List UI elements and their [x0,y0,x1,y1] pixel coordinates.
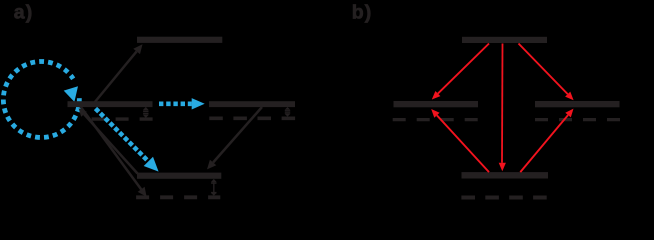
red arrow bottom to right (L5) [520,109,573,173]
excitation arrow to top level [95,44,143,102]
level middle-left bar a [68,101,153,107]
shift marker middle-left (double arrow) [143,107,149,118]
right dashed level b [535,118,620,121]
level bottom bar b [462,172,549,178]
pump cycle arrowhead [64,86,78,102]
svg-text:b): b) [352,2,373,24]
level top bar b [462,37,547,43]
red arrow top to bottom (L2) [499,44,506,172]
arrow bottom to middle-dashed (line2) [79,108,138,173]
shift marker middle-right (double arrow) [285,107,291,117]
level left bar b [394,101,479,107]
red arrow bottom to left (L4) [431,109,489,172]
middle-right dashed level a [209,117,296,121]
pump cycle circle (blue dotted) [3,61,79,137]
level |e> top bar a [137,37,222,43]
left dashed level b [393,118,478,121]
level bottom bar a [137,173,221,179]
level right bar b [535,101,620,107]
red arrow top to right (L3) [519,44,574,101]
bottom dashed level a [136,195,220,199]
blue diagonal dashed arrow [96,109,159,172]
bottom dashed level b [461,196,547,200]
middle-left dashed level a [92,117,153,120]
svg-text:a): a) [14,2,34,24]
shift marker bottom (double arrow with shaft) [211,179,217,196]
red arrow top to left (L1) [432,44,489,100]
decay arrow middle-right to bottom [207,107,262,169]
level middle-right bar a [209,101,295,107]
arrow middle to bottom-dashed (line1) [79,105,147,197]
blue horizontal dashed arrow [159,98,205,109]
